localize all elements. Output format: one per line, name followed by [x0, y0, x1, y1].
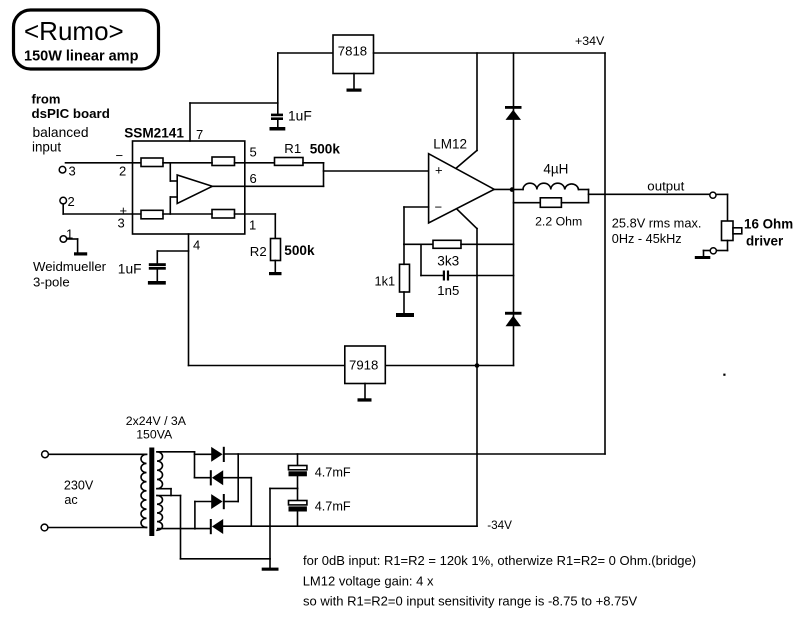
svg-text:dsPIC board: dsPIC board: [32, 106, 110, 121]
svg-text:so with R1=R2=0 input sensitiv: so with R1=R2=0 input sensitivity range …: [303, 594, 638, 609]
svg-text:230V: 230V: [64, 478, 94, 492]
svg-text:ac: ac: [64, 493, 77, 507]
svg-text:2: 2: [68, 194, 75, 209]
svg-text:output: output: [647, 178, 684, 193]
svg-text:16 Ohm: 16 Ohm: [744, 216, 793, 231]
svg-text:7918: 7918: [349, 358, 378, 373]
svg-text:7818: 7818: [338, 44, 367, 59]
svg-text:+: +: [435, 163, 443, 178]
svg-text:1n5: 1n5: [437, 283, 459, 298]
svg-text:−: −: [116, 148, 124, 163]
svg-text:7: 7: [196, 127, 203, 142]
svg-text:Weidmueller: Weidmueller: [33, 259, 107, 274]
svg-text:SSM2141: SSM2141: [124, 125, 184, 140]
svg-text:500k: 500k: [284, 243, 315, 258]
svg-text:150VA: 150VA: [136, 427, 173, 441]
svg-text:driver: driver: [746, 234, 784, 249]
svg-text:2: 2: [119, 164, 126, 179]
svg-text:−: −: [435, 199, 443, 214]
svg-text:R2: R2: [250, 244, 267, 259]
svg-text:2.2 Ohm: 2.2 Ohm: [535, 214, 582, 228]
svg-text:input: input: [32, 140, 61, 155]
svg-text:0Hz - 45kHz: 0Hz - 45kHz: [612, 232, 682, 246]
svg-text:-34V: -34V: [487, 519, 512, 532]
svg-text:R1: R1: [284, 141, 301, 156]
svg-text:6: 6: [250, 171, 257, 186]
svg-text:3-pole: 3-pole: [33, 274, 70, 289]
svg-text:1uF: 1uF: [118, 261, 142, 276]
svg-text:1: 1: [249, 218, 256, 233]
svg-text:5: 5: [250, 145, 257, 160]
svg-text:for 0dB input: R1=R2 = 120k 1%: for 0dB input: R1=R2 = 120k 1%, otherwiz…: [303, 553, 696, 568]
svg-text:4µH: 4µH: [543, 162, 568, 177]
svg-text:3: 3: [118, 216, 125, 231]
svg-text:balanced: balanced: [33, 125, 89, 140]
svg-text:500k: 500k: [310, 142, 341, 157]
svg-text:25.8V rms max.: 25.8V rms max.: [612, 216, 702, 231]
svg-text:1: 1: [66, 227, 73, 242]
svg-text:4: 4: [193, 238, 200, 253]
svg-text:LM12: LM12: [433, 136, 467, 151]
svg-text:4.7mF: 4.7mF: [315, 500, 351, 514]
svg-text:3k3: 3k3: [437, 254, 459, 269]
svg-text:from: from: [32, 92, 61, 107]
svg-text:150W linear amp: 150W linear amp: [24, 49, 139, 65]
svg-text:<Rumo>: <Rumo>: [24, 16, 124, 46]
svg-text:3: 3: [69, 164, 76, 179]
svg-text:+34V: +34V: [575, 34, 605, 48]
svg-text:1k1: 1k1: [375, 274, 396, 289]
svg-text:4.7mF: 4.7mF: [315, 465, 351, 479]
svg-text:2x24V / 3A: 2x24V / 3A: [126, 414, 187, 428]
svg-text:LM12 voltage gain: 4 x: LM12 voltage gain: 4 x: [303, 574, 434, 589]
svg-text:1uF: 1uF: [288, 109, 312, 124]
